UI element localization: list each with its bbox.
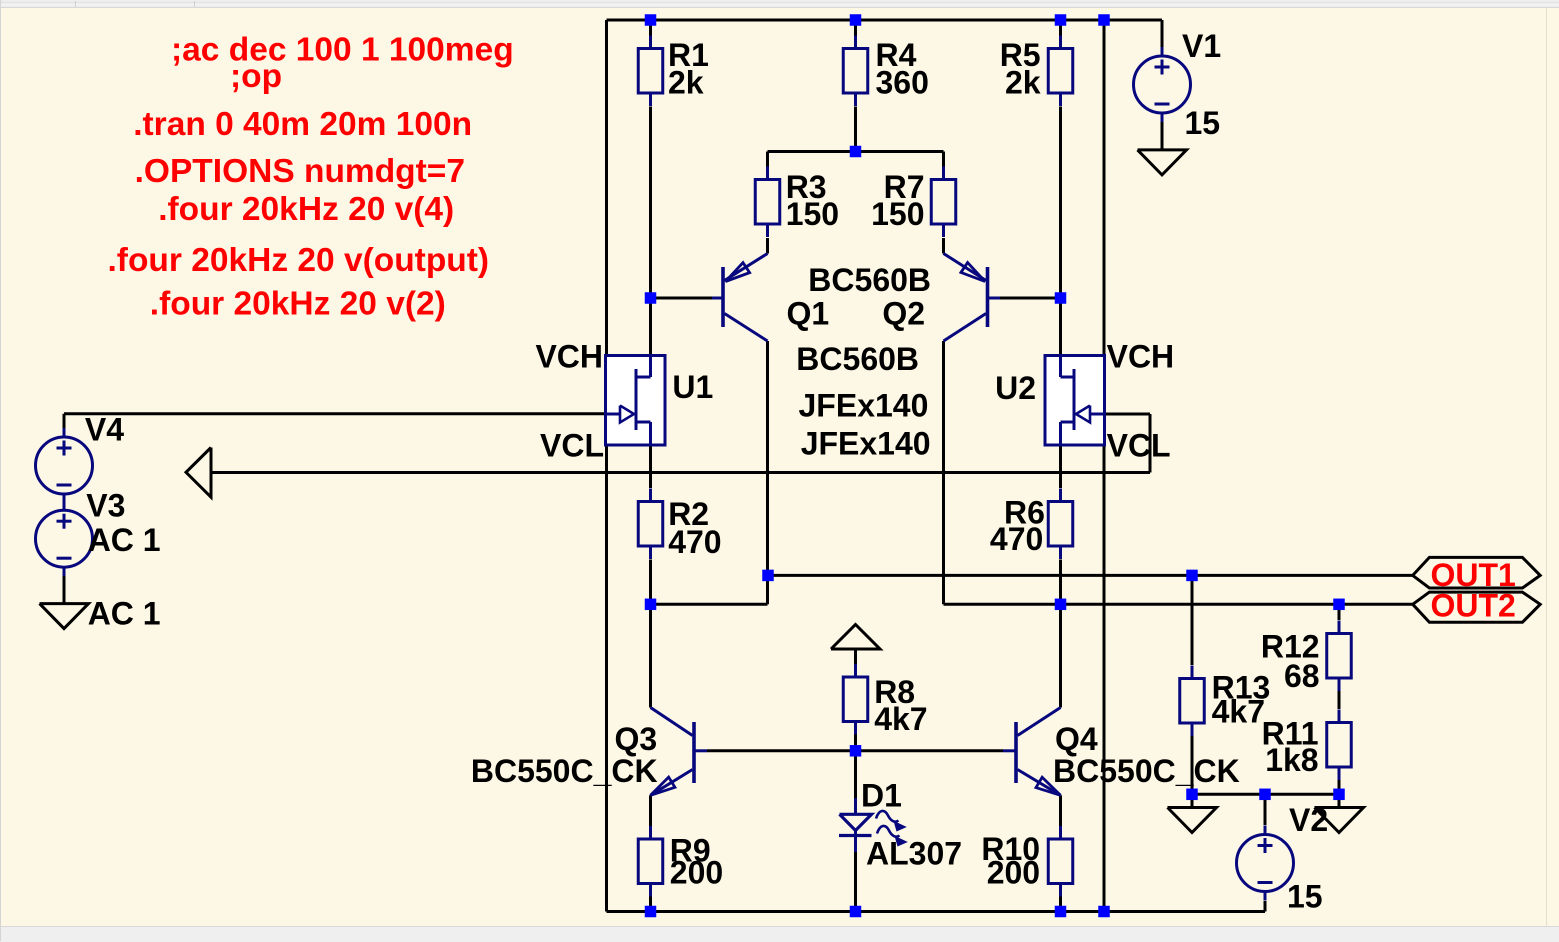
LED D1 AL307 — [839, 778, 962, 872]
junction top rail / R1 — [645, 14, 657, 26]
junction OUT2 / R12 — [1333, 599, 1345, 611]
wire left VCL rail (U1 to V-) — [605, 444, 608, 912]
wire right VCH rail (V+ to U2) — [1103, 20, 1106, 356]
svg-text:VCH: VCH — [1107, 339, 1175, 375]
svg-text:2k: 2k — [1005, 64, 1041, 100]
wire U2 drain — [1059, 298, 1062, 356]
wire Q4 base row — [856, 749, 1004, 752]
wire V2 bottom — [1264, 901, 1267, 912]
svg-text:OUT2: OUT2 — [1431, 588, 1516, 624]
svg-text:Q4: Q4 — [1055, 721, 1098, 757]
junction top rail / R5 — [1055, 14, 1067, 26]
junction bottom rail / D1 — [850, 906, 862, 918]
wire OUT2 net — [1061, 603, 1413, 606]
wire U1 drain — [649, 298, 652, 356]
wire Q2 collector down — [942, 341, 945, 604]
svg-text:200: 200 — [987, 854, 1040, 890]
resistor R8 — [843, 664, 927, 737]
svg-text:15: 15 — [1287, 879, 1323, 915]
resistor R9 — [638, 826, 723, 897]
wire V1 bottom to ground — [1161, 122, 1164, 150]
svg-text:VCL: VCL — [1107, 428, 1171, 464]
svg-text:V3: V3 — [86, 488, 125, 524]
wire V3 to ground — [63, 576, 66, 604]
wire R13 top — [1191, 575, 1194, 665]
wire R11 bottom — [1338, 780, 1341, 795]
svg-text:AC 1: AC 1 — [88, 522, 161, 558]
svg-text:15: 15 — [1185, 105, 1221, 141]
transistor Q4 — [1003, 708, 1061, 796]
svg-text:D1: D1 — [861, 778, 902, 814]
wire V4 top stub — [63, 414, 66, 428]
svg-text:.OPTIONS numdgt=7: .OPTIONS numdgt=7 — [135, 153, 465, 190]
svg-text:AC 1: AC 1 — [88, 595, 161, 631]
svg-text:;ac dec 100 1 100meg: ;ac dec 100 1 100meg — [171, 32, 514, 69]
svg-text:BC560B: BC560B — [796, 341, 919, 377]
svg-text:VCL: VCL — [540, 428, 604, 464]
svg-text:Q3: Q3 — [615, 721, 658, 757]
wire node 2 down to Q3 collector — [649, 604, 652, 707]
wire left VCH rail (V+ to U1) — [605, 20, 608, 356]
wire mid horizontal R3-R7 — [768, 150, 944, 153]
wire right VCL rail (U2 to V-) — [1103, 444, 1106, 912]
resistor R12 — [1261, 621, 1351, 694]
wire R1 branch upper — [649, 20, 652, 36]
junction bottom rail / R9 — [645, 906, 657, 918]
port flag OUT1 — [1413, 557, 1541, 588]
svg-text:.four 20kHz 20 v(output): .four 20kHz 20 v(output) — [108, 242, 490, 279]
svg-text:U1: U1 — [672, 369, 713, 405]
wire R11 ground stub — [1338, 794, 1341, 807]
wire R5 branch lower — [1059, 107, 1062, 299]
wire Q3 emitter to R9 — [649, 795, 652, 826]
svg-text:150: 150 — [786, 196, 839, 232]
wire R10 bottom — [1059, 897, 1062, 912]
wire R13 ground stub — [1191, 794, 1194, 807]
resistor R3 — [755, 167, 839, 238]
wire ground row R13-R11 — [1192, 793, 1339, 796]
voltage source V2 — [1237, 802, 1329, 915]
svg-text:V4: V4 — [85, 412, 124, 448]
svg-text:470: 470 — [668, 524, 721, 560]
svg-text:68: 68 — [1284, 658, 1320, 694]
ground under V3 — [40, 604, 89, 629]
svg-text:V1: V1 — [1182, 28, 1221, 64]
svg-text:JFEx140: JFEx140 — [801, 426, 931, 462]
wire node 4 down to Q4 collector — [1059, 604, 1062, 707]
wire R6 bottom — [1059, 560, 1062, 605]
junction R13 ground — [1186, 789, 1198, 801]
svg-text:JFEx140: JFEx140 — [799, 388, 929, 424]
power arrow above R8 — [831, 625, 880, 650]
svg-text:4k7: 4k7 — [874, 701, 927, 737]
wire Q3 base row — [707, 749, 856, 752]
svg-text:200: 200 — [670, 854, 723, 890]
junction Q2 base / R5 — [1055, 292, 1067, 304]
wire node 2 horizontal to R2 — [651, 603, 768, 606]
resistor R6 — [990, 489, 1073, 560]
junction top rail / R4 — [850, 14, 862, 26]
junction OUT1 / R13 — [1186, 570, 1198, 582]
svg-text:360: 360 — [876, 64, 929, 100]
wire feedback horizontal to input arrow — [211, 471, 1150, 474]
junction top rail / VCH right — [1098, 14, 1110, 26]
junction bottom rail / VCL right — [1098, 906, 1110, 918]
wire U2 gate to feedback corner — [1105, 413, 1151, 416]
resistor R11 — [1262, 710, 1352, 781]
svg-text:AL307: AL307 — [866, 835, 962, 871]
voltage source V1 — [1134, 28, 1222, 141]
wire U1 source to R2 — [649, 444, 652, 488]
wire D1 top — [854, 751, 857, 798]
wire V4-V3 link — [63, 493, 66, 510]
voltage source V4 — [36, 412, 125, 503]
wire OUT1 net — [768, 574, 1413, 577]
ground under V1 — [1138, 150, 1187, 175]
wire R4 branch upper — [854, 20, 857, 36]
svg-text:470: 470 — [990, 521, 1043, 557]
ground under R11 — [1315, 808, 1364, 833]
junction base row / R8 / D1 — [850, 745, 862, 757]
wire R3 top — [766, 152, 769, 167]
resistor R10 — [981, 826, 1072, 897]
svg-text:BC550C_CK: BC550C_CK — [471, 753, 658, 789]
svg-text:;op: ;op — [230, 58, 282, 95]
svg-text:4k7: 4k7 — [1212, 693, 1265, 729]
wire R7 bottom to Q2 emitter — [942, 238, 945, 254]
wire D1 bottom — [854, 852, 857, 912]
svg-text:1k8: 1k8 — [1265, 742, 1318, 778]
svg-text:Q2: Q2 — [882, 296, 925, 332]
wire R2 bottom — [649, 560, 652, 605]
wire R8 bottom — [854, 735, 857, 751]
svg-text:BC560B: BC560B — [808, 262, 931, 298]
wire R5 branch upper — [1059, 20, 1062, 36]
svg-text:.four 20kHz 20 v(4): .four 20kHz 20 v(4) — [158, 191, 454, 228]
port flag OUT2 — [1413, 592, 1541, 622]
wire R7 top — [942, 152, 945, 167]
junction bottom rail / R10 — [1055, 906, 1067, 918]
wire bottom supply rail — [607, 910, 1266, 913]
svg-text:VCH: VCH — [535, 339, 603, 375]
transistor Q2 — [944, 254, 1001, 342]
wire Q2 collector to node 4 — [944, 603, 1061, 606]
wire V4 to U1 gate — [64, 412, 606, 415]
input feedback arrow — [186, 448, 211, 498]
junction V2 top — [1259, 789, 1271, 801]
wire feedback right vertical — [1149, 414, 1152, 473]
resistor R7 — [871, 167, 956, 238]
junction node 4 (R6/Q4/OUT2) — [1055, 599, 1067, 611]
ground under R13 — [1168, 808, 1217, 833]
voltage source V3 — [36, 488, 161, 577]
transistor Q1 — [712, 254, 768, 342]
wire R12-R11 link — [1338, 691, 1341, 709]
wire U2 source to R6 — [1059, 444, 1062, 488]
op-amp U1 JFEx140 — [606, 356, 714, 446]
wire Q1 collector down to node 2 — [766, 341, 769, 604]
svg-text:.tran 0 40m 20m 100n: .tran 0 40m 20m 100n — [133, 106, 472, 143]
wire R1 branch lower — [649, 107, 652, 299]
resistor R4 — [843, 36, 929, 107]
junction node 2 (R2/Q3) — [645, 599, 657, 611]
resistor R2 — [638, 489, 721, 561]
junction OUT1 tap — [762, 570, 774, 582]
svg-text:.four 20kHz 20 v(2): .four 20kHz 20 v(2) — [150, 286, 446, 323]
op-amp U2 JFEx140 — [995, 356, 1104, 446]
resistor R1 — [638, 36, 709, 107]
resistor R13 — [1180, 666, 1271, 737]
wire Q2 base — [1000, 297, 1061, 300]
svg-text:2k: 2k — [668, 64, 704, 100]
wire V2 top — [1264, 794, 1267, 825]
junction Q1 base / R1 — [645, 292, 657, 304]
wire V1 top stub — [1161, 20, 1164, 47]
svg-text:150: 150 — [871, 196, 924, 232]
transistor Q3 — [651, 708, 708, 796]
wire Q4 emitter to R10 — [1059, 795, 1062, 826]
resistor R5 — [1000, 36, 1073, 107]
wire Q1 base — [651, 297, 713, 300]
svg-text:Q1: Q1 — [787, 296, 830, 332]
wire R8 top to power arrow — [854, 649, 857, 665]
wire R9 bottom — [649, 897, 652, 912]
wire R13 bottom — [1191, 736, 1194, 795]
wire R4 branch lower — [854, 107, 857, 152]
junction R11 ground — [1333, 789, 1345, 801]
wire R3 bottom to Q1 emitter — [766, 238, 769, 254]
wire top supply rail — [607, 19, 1163, 22]
junction R4 / mid rail — [850, 146, 862, 158]
svg-text:U2: U2 — [995, 370, 1036, 406]
svg-text:BC550C_CK: BC550C_CK — [1053, 753, 1240, 789]
wire R12 top — [1338, 604, 1341, 620]
